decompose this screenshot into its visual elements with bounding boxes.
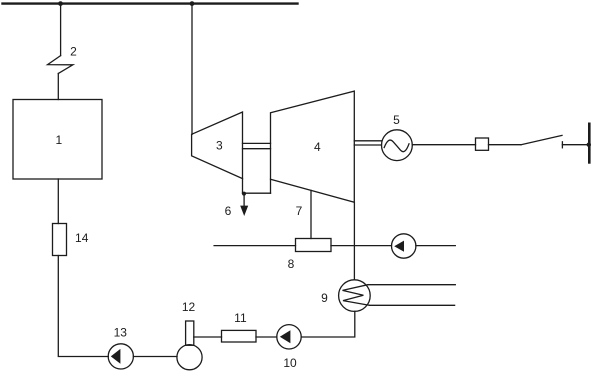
wire element 11 to pump 10 [256, 336, 277, 338]
deaerator 12 (tank circle) [177, 345, 202, 370]
svg-text:6: 6 [225, 204, 232, 218]
svg-text:10: 10 [283, 356, 297, 370]
wire from header down to breaker 2 [60, 4, 62, 56]
pump 10 impeller triangle [280, 330, 291, 343]
svg-text:7: 7 [296, 204, 303, 218]
svg-text:2: 2 [70, 45, 77, 59]
drain line element 8 to pump [331, 245, 392, 247]
node at duct bottom outlet [242, 192, 246, 196]
svg-text:11: 11 [234, 311, 247, 325]
crossover pipe upper line [243, 142, 271, 144]
turbine 3 (HP trapezoid) [192, 112, 243, 179]
svg-text:13: 13 [114, 326, 128, 340]
crossover duct left wall [242, 179, 244, 194]
crossover duct bottom [243, 192, 271, 194]
pump 10 (circle) [277, 325, 301, 349]
electric line generator to box [412, 144, 475, 146]
node junction at turbine supply drop [190, 1, 195, 6]
heating water line lower from heater 9 [370, 304, 455, 306]
drain pump (circle, unlabeled) [392, 234, 416, 258]
exhaust arrow 6 head [240, 206, 248, 216]
crossover pipe lower line [243, 148, 271, 150]
boiler box 1 [13, 100, 102, 180]
busbar (thick vertical bar) [588, 124, 591, 163]
node junction at breaker drop [58, 1, 63, 6]
svg-text:4: 4 [314, 140, 321, 154]
svg-text:1: 1 [55, 133, 62, 147]
heating water line upper from heater 9 [369, 284, 456, 286]
pump 13 impeller triangle [111, 349, 121, 364]
turbine 4 (LP trapezoid) [271, 91, 355, 202]
power header bus (top line) [3, 2, 298, 4]
wire header to turbine 3 inlet [191, 4, 193, 135]
wire from boiler 1 to valve 14 [57, 179, 59, 224]
svg-text:12: 12 [182, 300, 196, 314]
wire pump 13 to deaerator 12 [133, 356, 177, 358]
svg-text:14: 14 [75, 231, 89, 245]
pump 13 (circle) [108, 344, 133, 369]
shaft coupling lower line [354, 144, 381, 146]
svg-text:5: 5 [393, 113, 400, 127]
svg-text:8: 8 [288, 257, 295, 271]
wire pump 10 right then up to heater 9 [301, 311, 355, 337]
breaker 2 (zigzag break symbol) [48, 56, 73, 74]
wire deaerator 12 to element 11 [194, 336, 222, 338]
shaft coupling upper line [354, 140, 381, 142]
drain pump impeller triangle [394, 241, 404, 252]
switch fixed contact tick [561, 142, 563, 148]
node at busbar connection [587, 143, 591, 147]
wire from valve 14 down and right to pump 13 [58, 256, 108, 357]
wire heater 9 top up to turbine 4 exhaust [353, 202, 355, 279]
svg-text:3: 3 [216, 139, 223, 153]
electric line box to switch [489, 144, 522, 146]
wire from breaker 2 to boiler 1 [57, 74, 59, 100]
drain line through element 8 (left part) [214, 245, 295, 247]
deaerator 12 chimney column [186, 321, 194, 345]
element 8 (horizontal rectangle) [296, 239, 332, 252]
svg-text:9: 9 [321, 291, 328, 305]
heater 9 (circle with coil) [339, 280, 371, 312]
electric line switch to busbar [562, 144, 588, 146]
valve 14 (vertical rectangle) [53, 224, 67, 256]
element 11 (horizontal rectangle) [222, 330, 257, 342]
drain line from pump to right [416, 245, 455, 247]
generator 5 (circle) [382, 130, 413, 161]
generator 5 sine wave [384, 140, 409, 152]
exhaust arrow 6 stem [243, 194, 245, 206]
wire 7 from turbine 4 to element 8 [310, 190, 312, 238]
measurement box (small square) [476, 138, 489, 150]
crossover duct right wall [270, 179, 272, 193]
disconnect switch blade [521, 135, 562, 144]
heater 9 coil zigzag [343, 285, 370, 306]
